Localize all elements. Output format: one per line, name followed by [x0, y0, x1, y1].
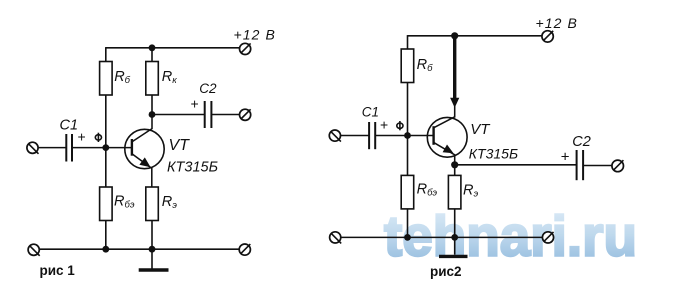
svg-text:КТ315Б: КТ315Б: [469, 145, 518, 161]
resistor Rбэ (right): [401, 175, 414, 209]
transistor VT (left) circle: [125, 129, 164, 168]
label node Ф (right): [397, 121, 403, 130]
svg-text:+: +: [380, 117, 388, 133]
svg-text:+: +: [561, 148, 570, 165]
wire: emitter node to C2 right: [455, 164, 577, 166]
svg-text:+: +: [191, 95, 199, 111]
terminal: bottom-right terminal right circuit: [542, 232, 553, 243]
node: collector node dot left: [149, 111, 156, 118]
svg-text:КТ315Б: КТ315Б: [167, 160, 218, 176]
transistor VT (right) emitter lead: [434, 142, 455, 164]
terminal: input terminal left circuit: [27, 142, 39, 154]
svg-text:Rб: Rб: [417, 57, 433, 74]
svg-text:tehnari.ru: tehnari.ru: [384, 205, 637, 269]
resistor Rэ (left): [146, 187, 159, 221]
wire: Rк top lead: [151, 48, 153, 62]
svg-text:Rбэ: Rбэ: [114, 194, 135, 211]
node: bottom rail dot at divider: [102, 246, 109, 253]
wire: collector node to C2: [152, 114, 205, 116]
wire: input to C1: [38, 147, 66, 149]
wire: Rбэ bottom to rail right: [407, 209, 409, 238]
wire: emitter node to Rэ right: [454, 165, 456, 176]
ground (right circuit): [439, 237, 468, 256]
node: bottom rail dot at emitter branch: [149, 246, 156, 253]
ground (left circuit): [139, 249, 169, 270]
wire: input to C1 right: [341, 135, 369, 137]
wire: Rбэ bottom to ground rail: [105, 221, 107, 250]
transistor VT (right) emitter arrow: [443, 145, 454, 154]
wire: thick collector current line: [453, 36, 456, 100]
transistor VT (left) collector lead: [132, 115, 152, 142]
transistor VT (left) emitter arrow: [139, 157, 150, 167]
terminal: +12V terminal left: [240, 43, 251, 54]
wire: collector current arrowhead: [450, 98, 459, 108]
svg-text:+12 В: +12 В: [234, 27, 276, 43]
wire: C2 to output terminal: [211, 114, 239, 116]
wire: C1 to base node: [72, 147, 106, 149]
capacitor C1 (left): [66, 134, 72, 162]
wire: Rэ bottom to ground rail: [151, 221, 153, 250]
transistor VT (left) emitter lead: [132, 154, 152, 187]
wire: Rб top lead: [105, 47, 107, 61]
capacitor C2 (right): [577, 150, 584, 180]
wire: collector thin lead right: [454, 36, 456, 118]
transistor VT (left) base bar: [131, 139, 133, 156]
svg-text:рис 1: рис 1: [40, 263, 76, 278]
wire: C1 to base node right: [375, 135, 407, 137]
transistor VT (right) collector lead: [434, 117, 455, 128]
svg-text:VT: VT: [169, 137, 191, 154]
node: top rail junction dot left: [149, 44, 156, 51]
wire: Rк bottom to collector node: [151, 95, 153, 115]
node: top rail junction dot right: [451, 32, 458, 39]
terminal: bottom-left terminal: [28, 244, 40, 256]
wire: top rail right: [408, 35, 543, 37]
label node Ф (left): [95, 133, 101, 142]
svg-text:+12 В: +12 В: [536, 15, 578, 31]
svg-text:Rбэ: Rбэ: [417, 182, 438, 199]
svg-text:Rк: Rк: [162, 69, 177, 86]
terminal: bottom-right terminal left circuit: [239, 244, 250, 255]
resistor Rб (left): [100, 62, 113, 96]
wire: base node to transistor base right: [408, 135, 434, 137]
wire: Rб top lead right: [407, 35, 409, 49]
wire: Rбэ top lead is part of divider; resistor Rбэ: [100, 187, 113, 221]
terminal: output terminal left circuit: [240, 109, 251, 120]
wire: C2 to output terminal right: [583, 165, 612, 167]
resistor Rк: [146, 62, 159, 96]
svg-text:Rэ: Rэ: [463, 183, 478, 200]
terminal: +12V terminal right: [542, 31, 553, 42]
wire: Rб bottom to base node right: [407, 83, 409, 176]
node: bottom rail dot at divider right: [404, 234, 411, 241]
wire: Rб bottom to base node to Rбэ top: [105, 95, 107, 187]
transistor VT (right) base bar: [432, 126, 434, 145]
svg-text:рис2: рис2: [430, 264, 462, 279]
wire: top rail left: [106, 47, 240, 49]
node: base node dot left: [102, 144, 109, 151]
capacitor C1 (right): [369, 122, 375, 149]
node: emitter node dot right: [451, 161, 458, 168]
svg-text:C2: C2: [199, 81, 217, 96]
capacitor C2 (left): [205, 101, 212, 128]
svg-text:Rб: Rб: [114, 69, 130, 86]
terminal: output terminal right circuit: [612, 160, 624, 172]
svg-text:VT: VT: [470, 121, 491, 138]
node: base node dot right: [404, 132, 411, 139]
svg-text:C1: C1: [60, 118, 79, 134]
wire: bottom rail left circuit: [39, 248, 239, 250]
svg-text:C1: C1: [362, 105, 379, 120]
node: bottom rail dot at emitter branch right: [451, 234, 458, 241]
terminal: bottom-left terminal right circuit: [330, 232, 342, 244]
svg-text:+: +: [78, 129, 86, 145]
terminal: input terminal right circuit: [329, 130, 341, 142]
resistor Rэ (right): [448, 175, 461, 209]
resistor Rб (right): [401, 49, 414, 83]
wire: bottom rail right circuit: [341, 236, 543, 238]
wire: Rэ bottom to rail right: [454, 209, 456, 238]
svg-text:Rэ: Rэ: [162, 194, 177, 211]
transistor VT (right) circle: [427, 117, 467, 157]
svg-text:C2: C2: [572, 134, 591, 150]
wire: base node to transistor base: [106, 147, 132, 149]
